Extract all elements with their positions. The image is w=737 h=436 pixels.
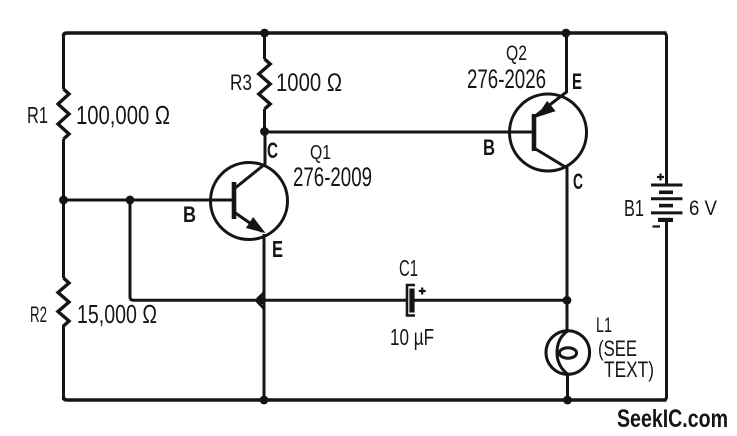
transistor Q2	[510, 33, 587, 171]
svg-text:C: C	[573, 169, 583, 194]
svg-text:L1: L1	[596, 314, 612, 337]
lamp L1	[546, 331, 590, 375]
wire feedback horizontal	[130, 297, 258, 300]
svg-text:C1: C1	[399, 255, 418, 281]
svg-text:276-2026: 276-2026	[467, 64, 546, 94]
wire Q1 emitter down	[263, 234, 266, 400]
wire R3 bottom	[263, 109, 266, 132]
wire right rail lower	[663, 220, 667, 400]
node bottom rail lamp junction	[563, 396, 572, 405]
node left rail base junction	[59, 196, 68, 205]
node Q2 collector C1 junction	[563, 296, 572, 305]
wire left rail lower	[62, 325, 65, 400]
wire lamp bottom	[566, 374, 569, 400]
svg-text:15,000 Ω: 15,000 Ω	[77, 299, 157, 329]
svg-text:E: E	[272, 236, 283, 262]
wire Q2 collector down	[566, 167, 569, 331]
svg-text:E: E	[572, 69, 582, 94]
svg-text:6 V: 6 V	[689, 197, 717, 220]
resistor R1	[58, 89, 69, 139]
svg-text:SeekIC.com: SeekIC.com	[617, 405, 728, 433]
wire Q1 collector to Q2 base	[265, 131, 535, 134]
wire C1 line right	[415, 299, 568, 302]
svg-text:R2: R2	[30, 302, 47, 327]
node Q2 emitter top junction	[562, 29, 571, 38]
wire right rail upper	[663, 33, 667, 185]
wire base node horizontal	[64, 199, 233, 202]
wire R3 top	[263, 33, 266, 59]
node feedback junction	[126, 196, 135, 205]
svg-text:10 µF: 10 µF	[390, 324, 434, 350]
node bottom rail emitter junction	[260, 396, 269, 405]
svg-text:100,000 Ω: 100,000 Ω	[76, 100, 170, 130]
battery B1	[651, 174, 683, 227]
node emitter C1 junction	[256, 296, 264, 304]
wire C1 line left	[258, 299, 406, 302]
wire bottom rail	[64, 397, 667, 400]
transistor Q1	[211, 132, 288, 240]
wire feedback vertical	[129, 200, 132, 297]
svg-text:R3: R3	[230, 70, 252, 95]
svg-text:B1: B1	[624, 195, 644, 221]
svg-text:Q2: Q2	[506, 42, 527, 65]
resistor R2	[58, 278, 69, 326]
svg-text:B: B	[183, 202, 196, 227]
svg-text:B: B	[483, 135, 495, 160]
junction kink	[257, 291, 264, 310]
node R3 bottom junction	[260, 127, 269, 136]
wire left rail middle	[62, 139, 65, 278]
node R3 top junction	[260, 29, 269, 38]
svg-text:276-2009: 276-2009	[293, 162, 372, 192]
svg-text:Q1: Q1	[310, 142, 331, 164]
capacitor C1	[407, 285, 426, 316]
svg-text:C: C	[267, 138, 278, 163]
svg-text:TEXT): TEXT)	[604, 357, 654, 382]
wire left rail upper	[62, 34, 65, 89]
svg-text:R1: R1	[27, 102, 48, 128]
svg-text:1000 Ω: 1000 Ω	[276, 69, 342, 97]
wire top rail	[64, 33, 667, 36]
resistor R3	[259, 59, 270, 109]
